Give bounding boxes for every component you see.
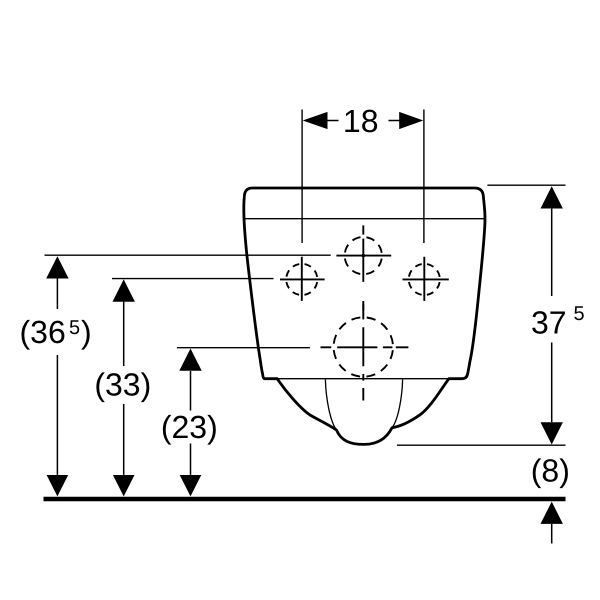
arrow 36.5 down xyxy=(47,475,69,496)
svg-text:(36: (36 xyxy=(20,314,66,350)
trapway right curve xyxy=(392,380,403,428)
extension line 36.5 xyxy=(45,254,331,256)
toilet outline xyxy=(244,188,485,444)
extension line top right xyxy=(487,184,565,186)
hole top-center circle xyxy=(345,237,382,274)
arrow 8 up xyxy=(541,502,563,524)
dimension line 33 xyxy=(123,302,125,475)
arrow 33 down xyxy=(113,475,135,496)
dimension line 36.5 xyxy=(56,279,58,475)
arrow 23 down xyxy=(180,475,202,496)
svg-text:(8): (8) xyxy=(531,453,570,489)
dimension line 23 xyxy=(190,371,192,475)
dimension line 37.5 xyxy=(551,209,553,423)
arrow 23 up xyxy=(179,349,201,371)
dimension line 18 xyxy=(328,120,400,122)
hole right centerlines xyxy=(403,257,449,301)
svg-text:5: 5 xyxy=(574,303,585,325)
svg-text:(23): (23) xyxy=(161,409,218,445)
svg-text:18: 18 xyxy=(343,103,379,139)
arrow 33 up xyxy=(113,279,135,301)
toilet inner top line xyxy=(245,218,485,220)
extension line bowl bottom xyxy=(397,444,566,446)
arrow 37.5 up xyxy=(541,186,563,208)
extension line 33 xyxy=(112,278,274,280)
extension line 18 right xyxy=(423,110,425,244)
hole left circle xyxy=(286,264,317,295)
hole left centerlines xyxy=(280,257,325,301)
arrow 18 left xyxy=(303,112,328,129)
toilet ledge line xyxy=(277,378,449,380)
dimension line 8 xyxy=(551,524,553,544)
hole right circle xyxy=(409,264,440,295)
extension line 23 xyxy=(177,347,310,349)
arrow 36.5 up xyxy=(46,256,68,278)
hole top-center dot xyxy=(362,254,366,258)
hole bottom circle xyxy=(334,317,393,376)
svg-text:5: 5 xyxy=(69,317,80,339)
svg-text:): ) xyxy=(81,314,92,350)
arrow 37.5 down xyxy=(541,422,563,444)
trapway left curve xyxy=(325,380,336,431)
svg-text:37: 37 xyxy=(531,304,567,340)
hole bottom centerlines xyxy=(321,304,409,401)
floor line xyxy=(44,497,566,502)
arrow 18 right xyxy=(399,112,423,129)
hole top-center centerlines xyxy=(336,225,391,310)
svg-text:(33): (33) xyxy=(94,367,151,403)
extension line 18 left xyxy=(301,110,303,244)
